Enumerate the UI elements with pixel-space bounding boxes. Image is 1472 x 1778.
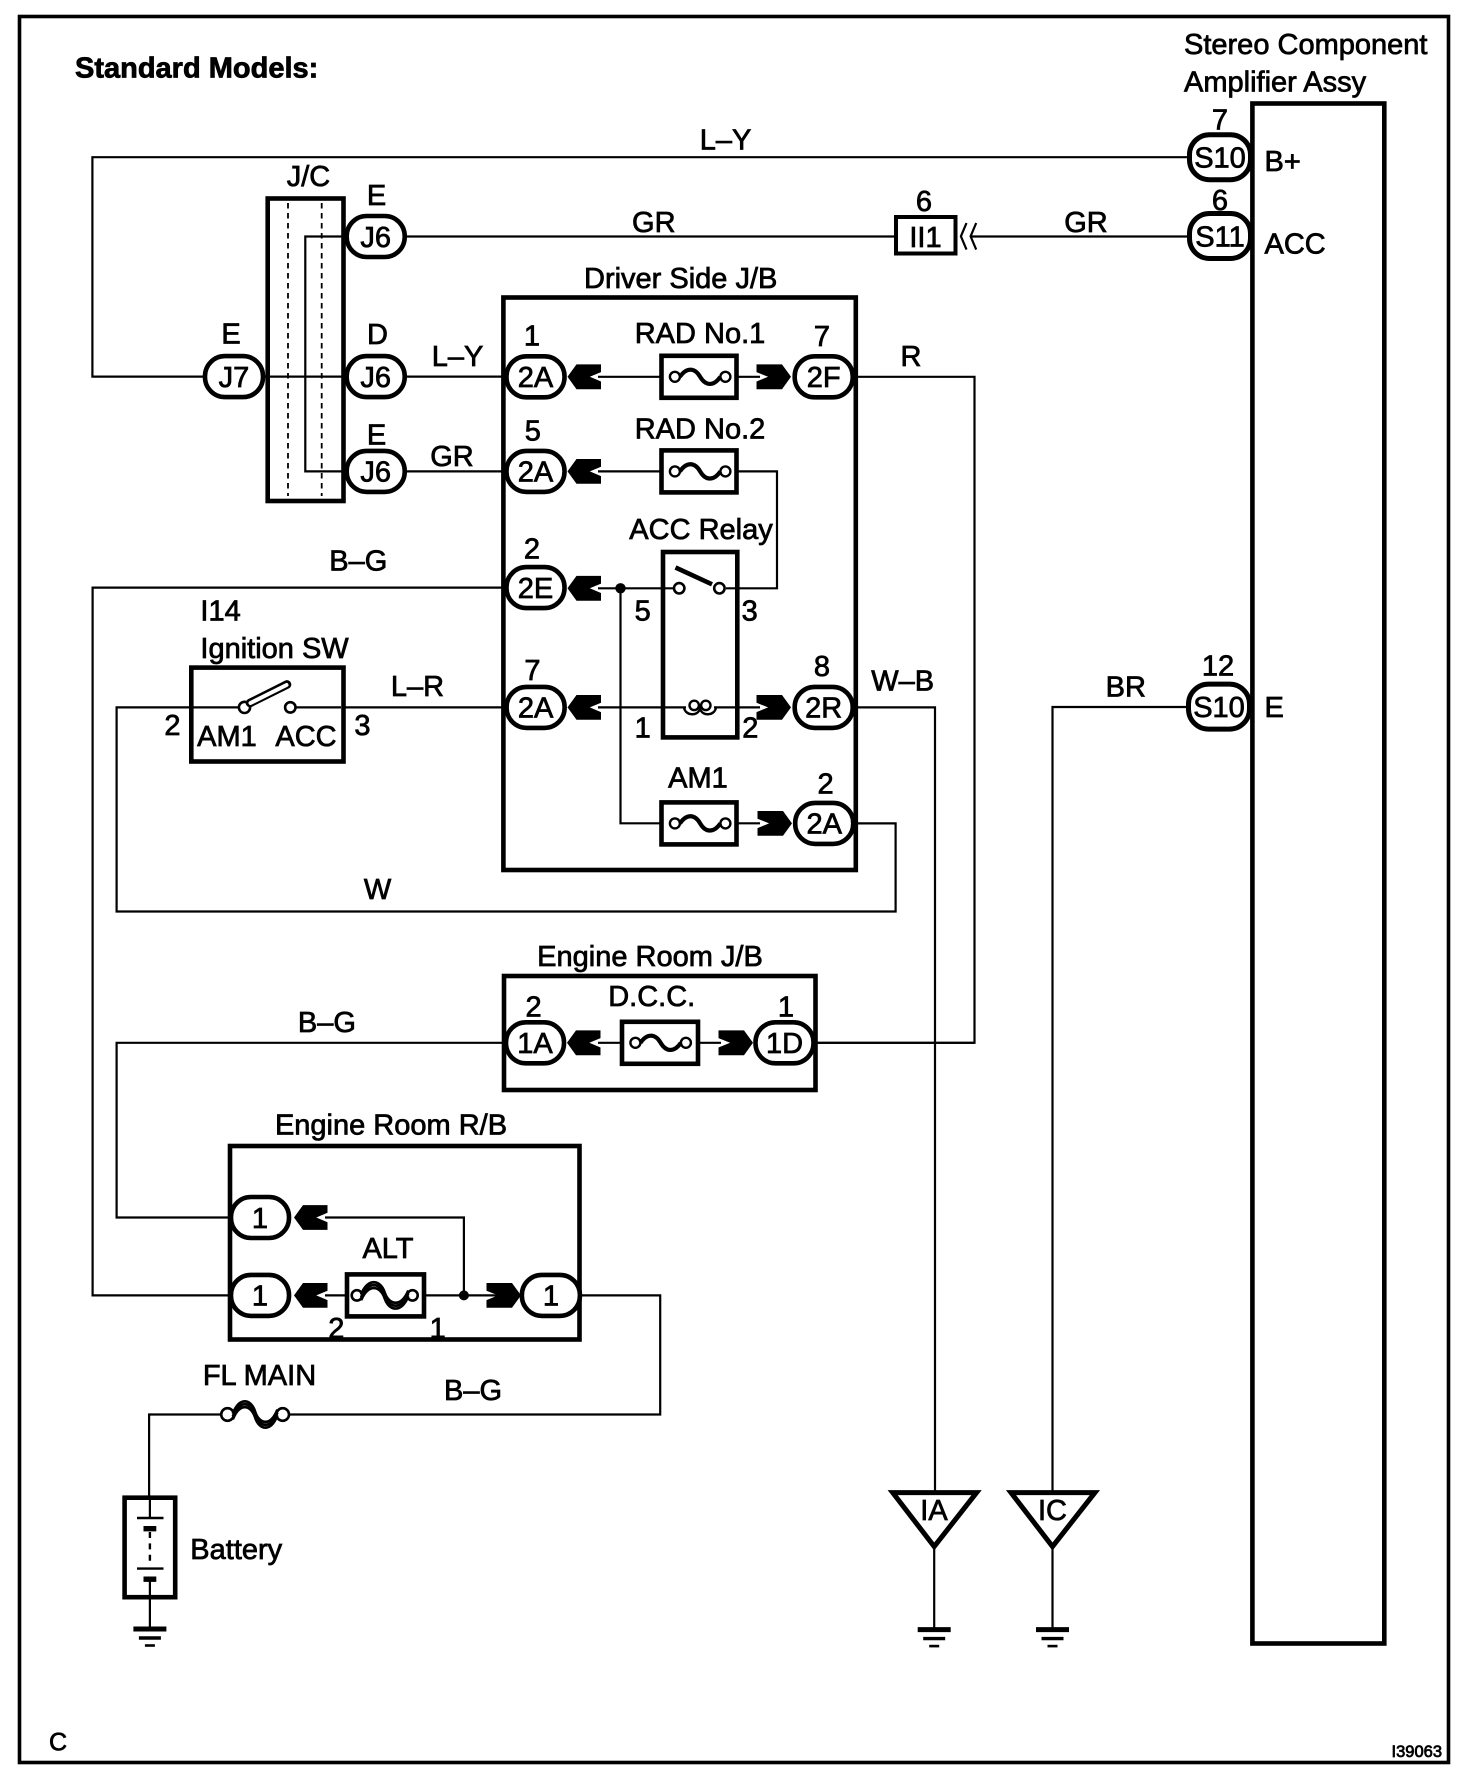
arrow into 1A [567, 1030, 601, 1055]
ignition contact ACC circle [285, 702, 295, 712]
svg-text:S11: S11 [1195, 221, 1244, 253]
relay coil [684, 707, 716, 714]
Engine Room R/B box [230, 1146, 580, 1340]
svg-text:5: 5 [525, 416, 541, 448]
svg-text:RAD No.2: RAD No.2 [635, 414, 766, 446]
svg-text:3: 3 [742, 595, 758, 627]
J/C internal bus wire [305, 237, 346, 472]
fusible link FL MAIN symbol [221, 1408, 234, 1421]
connector 2A pin2 [795, 803, 853, 844]
wire W-B from 2R down to IA [854, 707, 935, 1495]
connector triangle IA [893, 1493, 977, 1547]
Engine Room J/B box [504, 976, 816, 1090]
connector S10 pin12 E [1189, 684, 1250, 729]
svg-text:IA: IA [920, 1495, 948, 1527]
svg-text:12: 12 [1202, 651, 1234, 683]
connector J6 pin D [347, 356, 405, 397]
arrow into 2A pin7 [568, 695, 602, 720]
Stereo Component Amplifier Assy label [1184, 29, 1427, 99]
svg-text:D.C.C.: D.C.C. [608, 981, 695, 1013]
svg-text:BR: BR [1106, 671, 1146, 703]
svg-text:8: 8 [814, 651, 830, 683]
wire J7 to J6 D [264, 376, 346, 378]
ACC Relay box [663, 552, 737, 737]
Stereo Component Amplifier Assy box [1252, 104, 1384, 1644]
svg-text:AM1: AM1 [197, 721, 257, 753]
junction dot at ALT output [459, 1290, 469, 1300]
connector II1 box [896, 217, 956, 254]
svg-text:1: 1 [252, 1281, 268, 1313]
wire re-cross J7 row inside J/C [264, 376, 346, 378]
connector 2E pin2 [507, 567, 565, 608]
svg-text:2A: 2A [806, 809, 842, 841]
svg-text:E: E [1265, 692, 1284, 724]
svg-text:J6: J6 [360, 222, 391, 254]
svg-text:S10: S10 [1193, 692, 1245, 724]
svg-text:E: E [367, 420, 386, 452]
connector J6 pin E bottom [347, 451, 405, 492]
wire L-Y from S10 B+ to J7 [92, 157, 1188, 376]
connector J6 pin E top [347, 216, 405, 257]
wire W from 2A pin2 to Ignition SW pin2 [117, 707, 896, 911]
svg-text:ALT: ALT [362, 1233, 413, 1265]
svg-text:GR: GR [1064, 207, 1108, 239]
wire IA to ground [933, 1547, 935, 1630]
ignition internal wires [193, 706, 239, 708]
arrow into lower 1 [294, 1283, 328, 1308]
svg-text:Engine Room R/B: Engine Room R/B [275, 1110, 507, 1142]
svg-text:2A: 2A [518, 362, 554, 394]
connector 1 upper [231, 1197, 289, 1238]
wire battery to ground [149, 1598, 151, 1630]
svg-text:B–G: B–G [298, 1007, 356, 1039]
svg-text:ACC: ACC [275, 721, 336, 753]
svg-text:1: 1 [430, 1313, 446, 1345]
battery internals [137, 1498, 164, 1598]
wire D.C.C. fuse to 1D arrow [696, 1042, 721, 1044]
svg-text:7: 7 [1212, 105, 1228, 137]
svg-text:2R: 2R [805, 693, 842, 725]
Driver Side J/B box [503, 298, 855, 871]
svg-text:Ignition SW: Ignition SW [200, 633, 349, 665]
wire R from 2F to 1D [817, 377, 975, 1043]
svg-text:L–R: L–R [391, 671, 444, 703]
svg-text:RAD No.1: RAD No.1 [635, 318, 766, 350]
svg-text:L–Y: L–Y [700, 125, 752, 157]
wire RAD No.1 fuse to 2F arrow [735, 376, 760, 378]
svg-text:7: 7 [524, 655, 540, 687]
wire B-G from 1A to Engine Room R/B [117, 1043, 506, 1218]
fuse D.C.C. [622, 1022, 698, 1064]
junction dot at 2E node [615, 583, 625, 593]
svg-text:J7: J7 [219, 362, 250, 394]
svg-text:B+: B+ [1265, 146, 1301, 178]
connector 2F pin7 [795, 356, 853, 397]
svg-text:C: C [49, 1729, 67, 1757]
wire R/B lower pin arrow to ALT fuse [325, 1294, 349, 1296]
wire from 2E junction down to AM1 fuse [621, 588, 664, 823]
arrow out to 2R [757, 695, 792, 720]
svg-text:J/C: J/C [287, 161, 331, 193]
svg-text:Standard Models:: Standard Models: [75, 53, 318, 85]
wire AM1 fuse to 2A pin2 arrow [735, 822, 760, 824]
connector 1 lower right [522, 1275, 580, 1316]
wire GR from II1 to S11 ACC [971, 235, 1188, 237]
arrow into 2A pin5 [568, 459, 602, 484]
svg-text:2A: 2A [518, 457, 554, 489]
svg-text:1A: 1A [517, 1028, 553, 1060]
svg-text:2: 2 [164, 710, 180, 742]
wire RAD No.2 fuse to ACC relay pin3 [726, 471, 777, 588]
wire GR from J6 E to 2A pin5 [405, 470, 507, 472]
svg-text:Engine Room J/B: Engine Room J/B [537, 941, 763, 973]
wire GR from J6 to II1 [405, 235, 896, 237]
svg-text:2: 2 [818, 769, 834, 801]
wire R/B upper pin to ALT junction [325, 1218, 464, 1296]
svg-text:1: 1 [524, 320, 540, 352]
wire 1D to R vertical [817, 1042, 975, 1044]
wire BR from S10 E down to IC [1053, 707, 1189, 1495]
arrow out to 2A pin2 [758, 811, 793, 836]
connector 2R pin8 [795, 687, 853, 728]
connector 1 lower left [231, 1275, 289, 1316]
junction connector J/C box [268, 199, 344, 502]
svg-text:IC: IC [1038, 1495, 1067, 1527]
wire B-G from R/B to FL MAIN and battery [285, 1295, 660, 1414]
svg-text:E: E [221, 319, 240, 351]
svg-text:2E: 2E [518, 573, 553, 605]
connector S10 pin7 B+ [1190, 135, 1251, 180]
fuse RAD No.1 [662, 356, 737, 398]
svg-text:1D: 1D [766, 1028, 803, 1060]
svg-text:J6: J6 [360, 362, 391, 394]
ground (IA) [918, 1627, 951, 1632]
svg-text:Battery: Battery [190, 1534, 282, 1566]
ignition lever [250, 685, 287, 704]
fuse RAD No.2 [662, 450, 737, 492]
svg-text:S10: S10 [1194, 143, 1246, 175]
arrow into upper 1 [294, 1205, 328, 1230]
battery box [125, 1498, 176, 1598]
svg-text:E: E [367, 180, 386, 212]
svg-text:GR: GR [632, 207, 676, 239]
wire ALT fuse to output oval [422, 1294, 522, 1296]
fusible link ALT box [347, 1274, 424, 1316]
Ignition SW box [191, 668, 343, 762]
svg-text:Stereo Component: Stereo Component [1184, 29, 1427, 61]
arrow out to 1D [719, 1030, 754, 1055]
svg-text:2A: 2A [518, 693, 554, 725]
connector 1A pin2 [506, 1022, 564, 1063]
svg-text:I39063: I39063 [1392, 1743, 1442, 1761]
wire 2A pin7 arrow to relay coil [598, 706, 686, 708]
arrow into 2A pin1 [568, 364, 602, 389]
connector 2A pin1 [507, 356, 565, 397]
wire L-Y from J6 D to 2A pin1 [405, 376, 507, 378]
relay contact pin3 circle [714, 583, 724, 593]
svg-text:W–B: W–B [871, 665, 934, 697]
connector S11 pin6 ACC [1190, 214, 1251, 259]
svg-text:ACC: ACC [1265, 229, 1326, 261]
wire 2E arrow to relay pin5 [598, 587, 676, 589]
svg-text:L–Y: L–Y [432, 341, 484, 373]
svg-text:6: 6 [916, 186, 932, 218]
ALT fusible link symbol [352, 1290, 362, 1300]
connector 2A pin7 [507, 687, 565, 728]
svg-text:AM1: AM1 [668, 763, 728, 795]
II1 receptacle chevrons [961, 223, 967, 250]
arrow out to right 1 [487, 1283, 522, 1308]
connector triangle IC [1011, 1493, 1095, 1547]
svg-text:FL MAIN: FL MAIN [203, 1360, 316, 1392]
svg-text:I14: I14 [200, 595, 240, 627]
svg-text:B–G: B–G [329, 546, 387, 578]
fuse AM1 [662, 802, 737, 844]
arrow into 2E [568, 576, 602, 601]
svg-text:2: 2 [524, 533, 540, 565]
svg-text:5: 5 [635, 595, 651, 627]
svg-text:B–G: B–G [444, 1375, 502, 1407]
ground (IC) [1036, 1627, 1069, 1632]
svg-text:W: W [364, 874, 392, 906]
svg-text:GR: GR [430, 441, 474, 473]
ground (battery) [133, 1627, 166, 1632]
svg-text:1: 1 [543, 1281, 559, 1313]
svg-text:2: 2 [742, 713, 758, 745]
wire 2A pin5 arrow to RAD No.2 fuse [598, 470, 663, 472]
wire IC to ground [1051, 1547, 1053, 1630]
arrow out to 2F [757, 364, 792, 389]
svg-text:Driver Side J/B: Driver Side J/B [584, 263, 777, 295]
relay contact blade [676, 568, 713, 585]
connector 1D pin1 [756, 1022, 814, 1063]
connector 2A pin5 [507, 451, 565, 492]
svg-text:Amplifier Assy: Amplifier Assy [1184, 67, 1367, 99]
relay contact pin5 circle [674, 583, 684, 593]
wire 1A arrow to D.C.C. fuse [598, 1042, 624, 1044]
svg-text:ACC Relay: ACC Relay [629, 514, 773, 546]
svg-text:3: 3 [354, 710, 370, 742]
svg-text:2: 2 [328, 1313, 344, 1345]
svg-text:1: 1 [252, 1203, 268, 1235]
ignition contact AM1 circle [239, 702, 250, 713]
J/C dashed internal line 2 [321, 203, 323, 496]
svg-text:2: 2 [526, 992, 542, 1024]
wire B-G from 2E to Engine Room R/B [93, 588, 507, 1296]
connector J7 [205, 356, 263, 397]
svg-text:II1: II1 [909, 222, 941, 254]
svg-text:R: R [901, 341, 922, 373]
svg-text:1: 1 [635, 713, 651, 745]
wire 2A pin1 arrow to RAD No.1 fuse [598, 376, 663, 378]
wire L-R from Ignition SW to 2A pin7 [341, 706, 507, 708]
svg-text:J6: J6 [360, 457, 391, 489]
wire relay coil to 2R arrow [714, 706, 760, 708]
svg-text:6: 6 [1212, 185, 1228, 217]
svg-text:7: 7 [814, 321, 830, 353]
J/C dashed internal line 1 [287, 203, 289, 496]
svg-text:1: 1 [778, 992, 794, 1024]
svg-text:2F: 2F [807, 362, 841, 394]
svg-text:D: D [367, 319, 388, 351]
